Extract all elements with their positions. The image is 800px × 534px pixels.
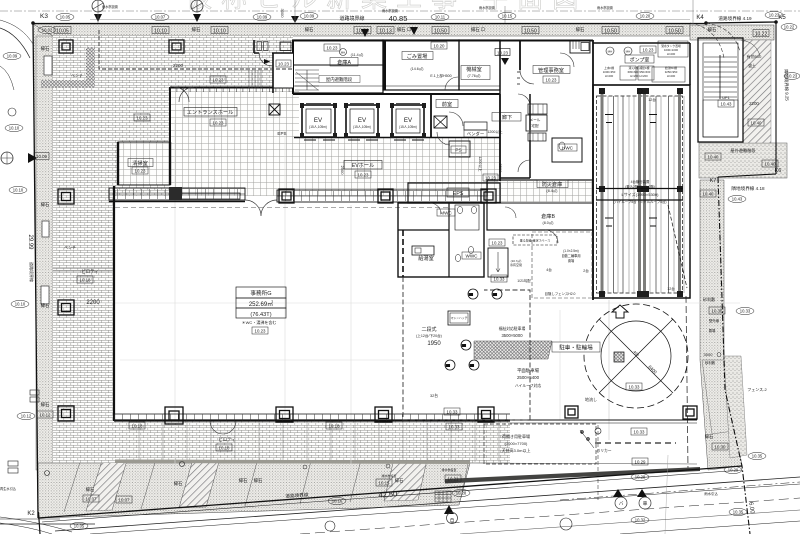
- svg-text:目隠しフェンスH2.0: 目隠しフェンスH2.0: [545, 291, 576, 296]
- svg-text:(15人,105m): (15人,105m): [353, 125, 371, 129]
- svg-text:EVホール: EVホール: [352, 162, 374, 169]
- svg-text:10.23: 10.23: [278, 62, 290, 67]
- gas/water small squares left edge: [8, 390, 39, 473]
- column piloti W1: [58, 189, 74, 204]
- wall EV band south: [294, 137, 500, 139]
- svg-text:2500×5400: 2500×5400: [517, 375, 540, 380]
- svg-text:1200以上: 1200以上: [487, 129, 503, 134]
- svg-text:屋内避難階段: 屋内避難階段: [326, 76, 353, 83]
- svg-text:10.09: 10.09: [7, 54, 18, 59]
- svg-text:10.43: 10.43: [732, 197, 743, 202]
- svg-text:10.15: 10.15: [502, 14, 513, 19]
- svg-text:自: 自: [450, 517, 455, 524]
- svg-text:10.32: 10.32: [635, 518, 646, 523]
- svg-text:ごみ置場: ごみ置場: [407, 52, 428, 60]
- svg-text:道路境界線 4.19: 道路境界線 4.19: [718, 15, 752, 22]
- beam south-east: [510, 419, 697, 421]
- bottom sidewalk band: [38, 463, 470, 518]
- svg-text:屋外避難階段: 屋外避難階段: [730, 147, 756, 154]
- columns south wall: [165, 406, 697, 424]
- manhole MH circles: [445, 289, 502, 370]
- svg-text:H=200: H=200: [605, 74, 614, 78]
- svg-text:10.23: 10.23: [358, 173, 370, 178]
- boundary left road line: [33, 24, 38, 519]
- mail boxes: [528, 104, 547, 114]
- EV door headers: [306, 103, 420, 105]
- svg-text:雨水引込: 雨水引込: [704, 491, 718, 496]
- svg-text:バ: バ: [619, 501, 624, 506]
- bench 1: [44, 56, 52, 75]
- svg-text:地流し: 地流し: [585, 396, 597, 402]
- svg-text:10.10: 10.10: [13, 188, 24, 193]
- boundary K7 down: [718, 177, 750, 534]
- wall garbage room: [383, 40, 459, 90]
- svg-text:MH: MH: [493, 294, 497, 297]
- svg-text:防災倉庫: 防災倉庫: [542, 180, 563, 188]
- svg-text:砂利敷: 砂利敷: [705, 360, 716, 365]
- svg-text:10.10: 10.10: [9, 126, 20, 131]
- toilet fixtures WWC: [455, 254, 460, 261]
- svg-text:4台: 4台: [546, 267, 552, 272]
- bottom diag joint strips: [86, 460, 127, 511]
- dark gravel band east: [724, 356, 747, 458]
- svg-text:10.40: 10.40: [751, 121, 763, 126]
- svg-text:排水桝設置: 排水桝設置: [441, 467, 456, 472]
- svg-text:42.50: 42.50: [378, 489, 397, 499]
- svg-text:10.05: 10.05: [60, 15, 71, 20]
- svg-text:MH: MH: [341, 51, 345, 55]
- parking bumper dashes: [595, 442, 676, 444]
- svg-text:縁石 ロ: 縁石 ロ: [471, 26, 485, 33]
- svg-text:排水桝設置: 排水桝設置: [381, 473, 396, 478]
- wall office west: [113, 186, 115, 421]
- svg-text:二段式: 二段式: [421, 326, 436, 333]
- column piloti W3: [58, 406, 74, 421]
- forecourt brick paving: [53, 36, 170, 196]
- stair treads: [704, 57, 737, 97]
- svg-text:10.40: 10.40: [708, 155, 720, 160]
- rail tick marks: [605, 115, 657, 227]
- svg-text:3000: 3000: [280, 9, 285, 19]
- svg-text:マシンハッチ: マシンハッチ: [451, 316, 468, 320]
- svg-text:清掃室: 清掃室: [132, 159, 148, 167]
- svg-text:縁石: 縁石: [305, 26, 314, 33]
- svg-text:自動二輪車用: 自動二輪車用: [561, 253, 580, 258]
- svg-text:4台横行装置: 4台横行装置: [631, 179, 650, 184]
- bicycle store dashed: [532, 232, 592, 298]
- svg-text:10.35: 10.35: [733, 510, 744, 515]
- boundary bottom road line: [38, 466, 742, 518]
- svg-text:ベンチ: ベンチ: [71, 73, 83, 78]
- drain dashed line: [597, 425, 599, 500]
- svg-text:1200以上: 1200以上: [478, 156, 483, 172]
- svg-text:10.18: 10.18: [80, 278, 92, 283]
- column forecourt 1: [59, 40, 73, 53]
- wall mgmt office: [499, 40, 501, 94]
- wall entrance west upper: [169, 87, 171, 142]
- svg-text:10.50: 10.50: [524, 29, 537, 35]
- svg-text:10.40: 10.40: [765, 162, 777, 167]
- bench 2: [42, 221, 49, 237]
- svg-text:10.23: 10.23: [135, 169, 147, 174]
- wall office north windowband left: [109, 188, 245, 200]
- svg-text:K6: K6: [775, 168, 782, 174]
- svg-text:10.35: 10.35: [752, 454, 763, 459]
- svg-text:10.11: 10.11: [435, 15, 446, 20]
- wall storageA/stairs: [293, 40, 383, 93]
- svg-text:(3000×7700): (3000×7700): [505, 441, 528, 446]
- accessible parking hatch: [474, 341, 552, 359]
- crossbeam band: [596, 189, 683, 201]
- svg-text:PS: PS: [455, 148, 461, 153]
- svg-text:倉庫B: 倉庫B: [541, 212, 555, 220]
- service niche rooms: [254, 40, 293, 93]
- svg-text:12台: 12台: [648, 97, 656, 102]
- rail gray bars: [602, 88, 680, 293]
- svg-text:32台: 32台: [430, 393, 438, 398]
- svg-text:MH: MH: [470, 365, 474, 368]
- boundary right K5-K6: [775, 22, 777, 174]
- svg-text:(1.0×2.5m): (1.0×2.5m): [563, 249, 579, 253]
- service area white backing: [274, 54, 294, 88]
- wall EPS row: [408, 183, 500, 203]
- svg-text:EV: EV: [358, 117, 367, 124]
- mech parking dashed pit outline: [597, 96, 683, 293]
- svg-text:MH: MH: [462, 345, 466, 348]
- EV hall tile grid: [294, 138, 500, 196]
- svg-text:乗る段差 確定スペース: 乗る段差 確定スペース: [520, 238, 550, 243]
- svg-text:10.10: 10.10: [154, 29, 167, 35]
- svg-text:MWC: MWC: [440, 211, 452, 216]
- svg-text:10.23: 10.23: [255, 329, 267, 334]
- wall hall north: [170, 87, 294, 89]
- svg-text:10.40: 10.40: [703, 192, 715, 197]
- svg-text:天井高3.0m以上: 天井高3.0m以上: [502, 447, 531, 453]
- wall rooms north: [292, 40, 593, 42]
- svg-text:ポンプ室: ポンプ室: [630, 57, 650, 64]
- wall EV band right: [430, 94, 432, 138]
- svg-text:(14.6㎡): (14.6㎡): [411, 66, 424, 71]
- machine hatch rect: [448, 311, 470, 325]
- svg-text:雨水桝設置: 雨水桝設置: [597, 5, 613, 10]
- svg-text:縁石: 縁石: [239, 477, 248, 484]
- faint title watermark: [186, 0, 587, 13]
- svg-text:堅外線: 堅外線: [709, 318, 720, 323]
- svg-text:ベンチ: ベンチ: [64, 245, 76, 250]
- hall planter bench: [180, 193, 240, 199]
- svg-text:縁石: 縁石: [41, 201, 50, 208]
- svg-text:10.23: 10.23: [546, 78, 558, 83]
- svg-text:10.12: 10.12: [21, 414, 32, 419]
- svg-text:12台: 12台: [667, 286, 675, 291]
- svg-text:(乗込2階ピット2階): (乗込2階ピット2階): [625, 184, 655, 189]
- boundary top road line: [33, 23, 706, 25]
- svg-text:1/21勾配: 1/21勾配: [517, 278, 531, 283]
- hall north wall ticks: [170, 87, 294, 92]
- bottom band joint lines: [64, 454, 470, 512]
- svg-text:縁石: 縁石: [41, 401, 50, 408]
- svg-text:バリカー: バリカー: [596, 448, 611, 453]
- up arrow symbol: [612, 305, 628, 318]
- svg-text:10.23: 10.23: [327, 46, 339, 51]
- fence dashed line: [686, 296, 688, 470]
- wall EV band north: [293, 93, 500, 95]
- svg-text:メール: メール: [530, 118, 541, 122]
- svg-text:雨水桝設置: 雨水桝設置: [382, 8, 398, 13]
- wall cleaner room: [459, 40, 500, 90]
- mech parking labels: [625, 179, 655, 189]
- exterior stair outer: [698, 38, 743, 142]
- svg-text:再生水引込: 再生水引込: [0, 486, 17, 491]
- utility boxed labels: [437, 55, 654, 352]
- wall rooms east: [592, 40, 594, 300]
- svg-text:給湯室: 給湯室: [418, 254, 434, 262]
- stairs treads indoor: [295, 70, 319, 90]
- entrance hall tile grid: [170, 87, 299, 196]
- left grid marker: [1, 152, 13, 164]
- anteroom shaft X: [434, 116, 447, 128]
- svg-text:H=200: H=200: [667, 74, 676, 78]
- svg-text:40.85: 40.85: [389, 14, 408, 23]
- grid marker circle top 2: [191, 0, 203, 12]
- svg-text:MH: MH: [469, 294, 473, 297]
- svg-text:隣地境界線 4.18: 隣地境界線 4.18: [731, 185, 765, 192]
- NE corner radius arcs: [690, 23, 740, 58]
- svg-text:10.12: 10.12: [40, 413, 52, 418]
- EV pier pads: [300, 103, 426, 138]
- room cleaner: [118, 142, 170, 185]
- svg-text:10.18: 10.18: [219, 446, 231, 451]
- svg-text:10.18: 10.18: [132, 424, 144, 429]
- loading bay dashed rect: [484, 424, 596, 464]
- svg-text:10.23: 10.23: [497, 51, 509, 56]
- svg-text:10.21: 10.21: [448, 477, 460, 482]
- EV cars inner: [304, 109, 424, 140]
- PS room: [449, 141, 470, 157]
- svg-text:EPS: EPS: [277, 131, 286, 136]
- wall rooms west: [292, 40, 294, 94]
- svg-text:10.50: 10.50: [604, 29, 617, 35]
- svg-text:フェンス-2: フェンス-2: [747, 387, 767, 392]
- svg-text:10.29: 10.29: [728, 468, 739, 473]
- svg-text:2200: 2200: [86, 300, 100, 306]
- svg-text:10.13: 10.13: [379, 29, 392, 35]
- grid arrow top: [94, 14, 102, 22]
- svg-text:＊WC・湯沸を含む: ＊WC・湯沸を含む: [242, 319, 277, 325]
- grid tick lines: [98, 0, 693, 25]
- K5 point: [774, 20, 778, 24]
- svg-text:Lサイズ(1950×5300): Lサイズ(1950×5300): [622, 191, 660, 197]
- top-right sidewalk band: [690, 25, 774, 40]
- svg-text:縁石: 縁石: [174, 480, 183, 487]
- svg-text:(76.43T): (76.43T): [250, 312, 271, 318]
- svg-text:2200: 2200: [749, 101, 759, 106]
- ramp rect: [488, 248, 508, 277]
- dashed diagonal guide: [668, 205, 687, 288]
- corridor line above EV: [293, 85, 500, 87]
- svg-text:荷捌き用駐車場: 荷捌き用駐車場: [502, 433, 530, 439]
- svg-text:事務所G: 事務所G: [250, 289, 271, 297]
- svg-text:(15人,105m): (15人,105m): [399, 125, 417, 129]
- svg-text:10.09: 10.09: [304, 14, 315, 19]
- wall office south: [114, 419, 510, 421]
- svg-text:(15人,105m): (15人,105m): [309, 125, 327, 129]
- NE gravel area: [699, 143, 787, 178]
- svg-text:EV: EV: [404, 117, 413, 124]
- svg-text:雨水桝設置: 雨水桝設置: [479, 5, 495, 10]
- columns hall south wall: [279, 189, 496, 203]
- curb texts: [41, 26, 717, 493]
- svg-text:専有空間: 専有空間: [510, 262, 522, 267]
- K3 point: [31, 21, 35, 25]
- svg-text:(7.76㎡): (7.76㎡): [468, 73, 481, 78]
- svg-text:10.23: 10.23: [492, 241, 504, 246]
- room name labels: [128, 52, 570, 263]
- svg-text:車: 車: [643, 500, 648, 507]
- door arcs hall entrance: [174, 87, 194, 102]
- svg-text:平面駐車場: 平面駐車場: [517, 367, 540, 374]
- svg-text:10.33: 10.33: [447, 410, 459, 415]
- wall corridor east: [529, 94, 531, 178]
- svg-text:H=200 H=200: H=200 H=200: [630, 74, 648, 78]
- svg-text:宅配: 宅配: [531, 123, 539, 128]
- grid marker circle top: [92, 0, 104, 12]
- vending corner: [464, 122, 487, 130]
- svg-text:K4: K4: [696, 15, 704, 21]
- manhole circles road: [45, 471, 50, 476]
- svg-text:MH: MH: [626, 50, 631, 54]
- svg-text:10.50: 10.50: [434, 29, 447, 35]
- svg-text:K5: K5: [778, 15, 786, 21]
- left road corner arcs: [0, 28, 30, 58]
- svg-text:管理事務室: 管理事務室: [538, 66, 564, 74]
- svg-text:10.22: 10.22: [784, 25, 795, 30]
- svg-text:10.28: 10.28: [635, 475, 646, 480]
- svg-text:MH: MH: [608, 50, 613, 54]
- svg-text:10.33: 10.33: [634, 430, 646, 435]
- svg-text:10.10: 10.10: [213, 29, 226, 35]
- corridor walls: [500, 94, 530, 178]
- column in band: [169, 187, 182, 200]
- svg-text:10.28: 10.28: [456, 491, 467, 496]
- boxed level labels top band: [54, 27, 769, 37]
- svg-text:縁石: 縁石: [41, 45, 50, 52]
- svg-text:10.33: 10.33: [740, 309, 751, 314]
- colonnade west brick: [53, 196, 115, 463]
- svg-text:10.09: 10.09: [36, 154, 48, 159]
- svg-text:HWC: HWC: [562, 146, 574, 151]
- svg-text:EV: EV: [314, 117, 323, 124]
- cistern circle dashed: [584, 304, 688, 408]
- wall storerooms: [487, 180, 593, 230]
- svg-text:10.05: 10.05: [56, 29, 69, 35]
- svg-text:前室: 前室: [442, 100, 452, 108]
- boundary K6-K7: [718, 174, 776, 177]
- top anchor squares: [599, 88, 683, 297]
- svg-text:10.20: 10.20: [434, 44, 446, 49]
- svg-text:雨水桝設置: 雨水桝設置: [102, 4, 118, 9]
- svg-text:K3: K3: [40, 13, 48, 20]
- kitchenette counter: [412, 246, 434, 255]
- svg-text:砂利敷: 砂利敷: [703, 296, 715, 302]
- svg-text:道路境界線: 道路境界線: [29, 262, 35, 282]
- svg-text:盛土: 盛土: [748, 63, 756, 68]
- svg-text:MH: MH: [446, 365, 450, 368]
- svg-text:10.29: 10.29: [635, 460, 647, 465]
- left sidewalk strip: [33, 24, 53, 518]
- svg-text:10.20: 10.20: [640, 14, 651, 19]
- K4 point: [704, 21, 708, 25]
- bollards line: [580, 430, 594, 448]
- office east dashed: [402, 230, 404, 277]
- corner marker circles: [600, 89, 682, 93]
- svg-text:(8.0㎡): (8.0㎡): [543, 220, 554, 225]
- HWC room: [552, 138, 582, 162]
- svg-text:10.23: 10.23: [137, 116, 149, 121]
- svg-text:252.69㎡: 252.69㎡: [249, 300, 273, 308]
- bench 2b: [41, 286, 49, 304]
- svg-text:10.33: 10.33: [629, 385, 641, 390]
- svg-text:置場: 置場: [709, 328, 716, 333]
- svg-text:10.23: 10.23: [213, 78, 225, 83]
- svg-text:EPS: EPS: [453, 191, 464, 197]
- EPS shaft X box: [269, 104, 280, 115]
- svg-text:(8.4㎡): (8.4㎡): [547, 188, 558, 193]
- svg-text:K7: K7: [710, 178, 717, 184]
- crosswalk grid: [435, 491, 451, 502]
- svg-text:10.22: 10.22: [755, 32, 768, 38]
- dim line top: [0, 10, 800, 12]
- pump room walls: [593, 42, 690, 44]
- svg-text:10.30: 10.30: [715, 445, 727, 450]
- svg-text:倉庫A: 倉庫A: [337, 58, 351, 66]
- svg-text:2500: 2500: [498, 164, 503, 174]
- svg-text:縁石: 縁石: [705, 433, 714, 440]
- svg-text:UP1: UP1: [722, 96, 729, 100]
- pump room equipment: [620, 41, 688, 82]
- svg-text:10.23: 10.23: [213, 121, 225, 126]
- svg-text:10.09: 10.09: [257, 15, 268, 20]
- svg-text:10.10: 10.10: [15, 302, 26, 307]
- svg-text:K2: K2: [27, 511, 35, 517]
- piloti exit door arcs: [210, 421, 236, 434]
- canopy dashed outline: [99, 30, 293, 69]
- office G label block: [236, 287, 286, 318]
- EV shaft walls: [302, 105, 424, 137]
- svg-text:廊下: 廊下: [502, 113, 512, 121]
- svg-text:1950: 1950: [427, 341, 441, 347]
- svg-text:縁石: 縁石: [41, 302, 50, 309]
- wall office north windowband right: [277, 190, 500, 202]
- svg-text:WWC: WWC: [466, 254, 479, 259]
- svg-text:29.99: 29.99: [27, 234, 33, 250]
- svg-text:10.15: 10.15: [379, 481, 391, 486]
- svg-text:10.07: 10.07: [119, 498, 131, 503]
- svg-text:縁石: 縁石: [192, 26, 201, 33]
- svg-text:2500: 2500: [340, 166, 345, 176]
- tactile paving strip vertical: [86, 47, 95, 87]
- svg-text:2200: 2200: [173, 63, 184, 68]
- svg-text:ベンダー: ベンダー: [467, 131, 485, 138]
- svg-text:10.16: 10.16: [332, 499, 343, 504]
- wall toilets block: [398, 203, 484, 277]
- svg-text:縁石: 縁石: [395, 477, 404, 484]
- svg-text:縁石: 縁石: [254, 477, 263, 484]
- svg-text:縁石: 縁石: [708, 26, 717, 33]
- svg-text:10.33: 10.33: [449, 425, 461, 430]
- svg-text:置場: 置場: [568, 258, 575, 263]
- svg-text:10.50: 10.50: [668, 29, 681, 35]
